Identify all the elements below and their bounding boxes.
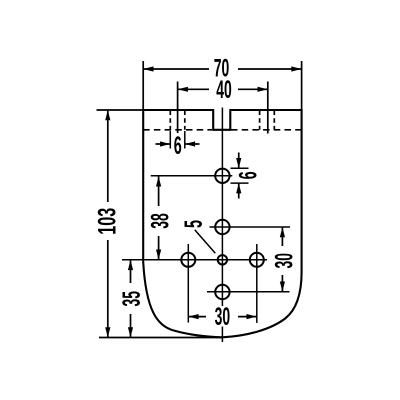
dim 103 arrow bottom	[105, 327, 110, 337]
svg-text:40: 40	[216, 76, 232, 104]
dim 103/35 extension bottom	[99, 337, 223, 339]
centerline hole 6dia	[151, 175, 233, 177]
svg-text:38: 38	[147, 213, 175, 229]
dim 6 dia arrow bottom	[238, 183, 240, 198]
dim 38 line	[158, 176, 160, 260]
dim 30 horizontal arrow left	[188, 314, 198, 319]
dim 35 arrow bottom	[128, 327, 133, 337]
dim 103 line	[107, 110, 109, 338]
dim 103 extension top	[97, 109, 147, 111]
hidden recess line (dashed)	[143, 129, 301, 131]
dim 30 horizontal arrow right	[247, 314, 257, 319]
svg-text:103: 103	[93, 208, 121, 235]
right slot edge dashed left	[259, 111, 261, 130]
hole top of cross	[215, 220, 229, 234]
dim 103 arrow top	[105, 110, 110, 120]
dim 40 extension right	[267, 82, 269, 134]
dim 40 arrow right	[258, 87, 268, 92]
dim 6 dia tangent bottom	[231, 182, 249, 184]
dim 35 line	[130, 260, 132, 338]
svg-text:5: 5	[180, 220, 208, 228]
plate outline	[143, 110, 301, 337]
dim 30 vertical line	[281, 227, 283, 292]
dim 70 extension right	[301, 61, 303, 109]
centerline left hole vertical	[187, 244, 189, 323]
dim 38 arrow top	[156, 176, 161, 186]
dim 30 vertical arrow top	[280, 227, 285, 237]
svg-text:30: 30	[215, 303, 231, 331]
dim 6 slot extension left	[169, 131, 171, 149]
svg-text:35: 35	[118, 291, 146, 307]
dim 6 slot extension right	[184, 131, 186, 149]
svg-text:30: 30	[270, 253, 298, 269]
dim 30 horizontal line	[188, 316, 256, 318]
dim 70 arrow left	[143, 66, 153, 71]
dim 70 extension left	[142, 61, 144, 109]
centerline middle row	[122, 259, 267, 261]
dim 38 arrow bottom	[156, 250, 161, 260]
centerline right hole vertical	[256, 244, 258, 323]
dim 30 vertical arrow bottom	[280, 282, 285, 292]
dim 35 arrow top	[128, 260, 133, 270]
dim 6 dia tangent top	[231, 167, 249, 169]
dim 6 slot arrow left	[156, 143, 171, 145]
leader line for 5	[195, 230, 216, 253]
hole 6 dia top	[215, 169, 229, 183]
left slot edge dashed right	[184, 111, 186, 130]
dim 40 line	[178, 88, 268, 90]
dim 70 line	[143, 68, 301, 70]
dim 6 slot arrow right	[185, 143, 199, 145]
hole small 5 dia center	[218, 255, 227, 264]
dim 40 arrow left	[178, 87, 188, 92]
hole left	[181, 253, 195, 267]
hole bottom	[215, 285, 229, 299]
hole right	[250, 253, 264, 267]
dim 40 extension left	[177, 82, 179, 134]
left slot edge dashed left	[169, 111, 171, 130]
right slot edge dashed right	[273, 111, 275, 130]
centerline top cross hole	[210, 226, 291, 228]
dim 70 arrow right	[291, 66, 301, 71]
svg-text:6: 6	[234, 171, 262, 179]
dim 6 dia arrow top	[238, 153, 240, 169]
svg-text:6: 6	[174, 132, 182, 160]
centerline bottom hole	[207, 291, 290, 293]
centerline vertical	[221, 108, 223, 343]
